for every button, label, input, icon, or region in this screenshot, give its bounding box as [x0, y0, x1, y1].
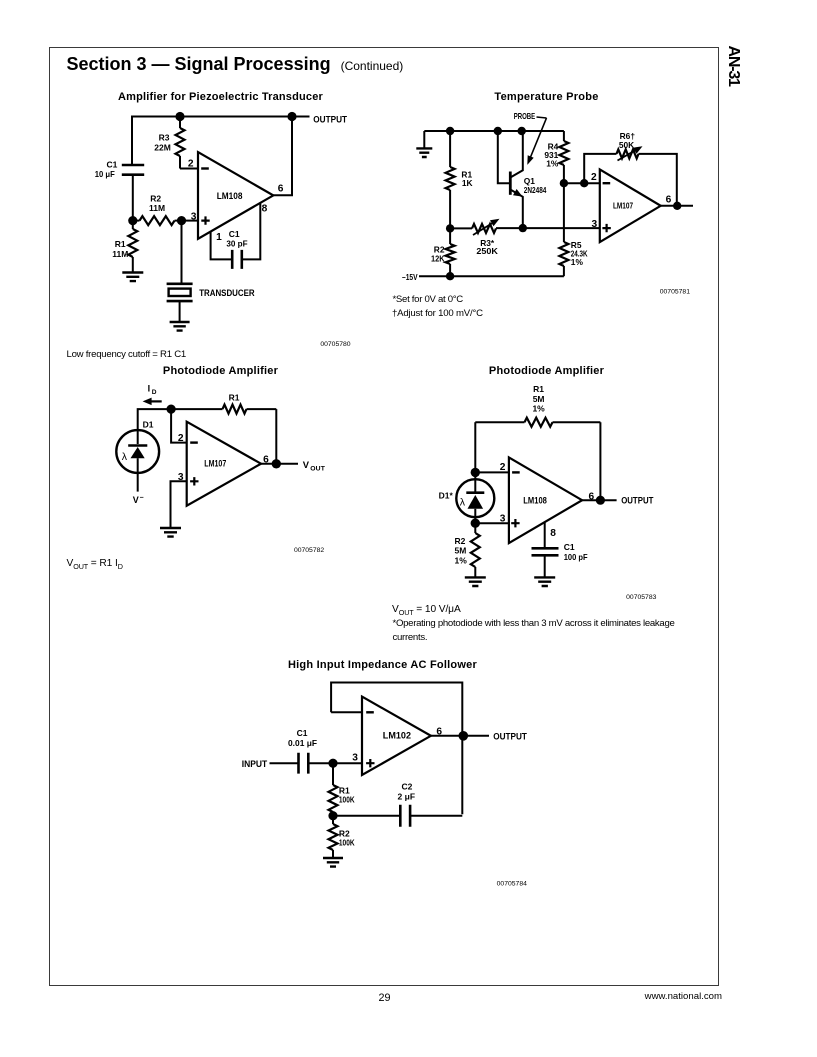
page border frame — [49, 47, 719, 986]
svg-text:00705784: 00705784 — [497, 880, 527, 887]
svg-text:R1: R1 — [229, 392, 240, 402]
wire C1 to pin3 circuit5 — [308, 762, 361, 764]
svg-text:8: 8 — [550, 528, 556, 539]
label 11M R1 — [112, 249, 128, 259]
ground top-left circuit2 — [416, 148, 432, 157]
section heading — [67, 54, 404, 75]
resistor R2 11M — [133, 216, 182, 225]
node inverting top circuit3 — [167, 405, 176, 414]
minus sign circuit1 — [201, 167, 209, 169]
svg-text:C1: C1 — [297, 728, 308, 738]
svg-text:1%: 1% — [455, 555, 468, 565]
wire transducer circuit1 — [181, 221, 183, 284]
pin 2 label circuit1 — [188, 158, 194, 169]
transistor Q1 2N2484 — [510, 131, 523, 228]
svg-text:LM107: LM107 — [613, 200, 633, 210]
formula VOUT = 10 V/uA — [392, 604, 461, 617]
svg-text:I: I — [148, 384, 151, 394]
label LM108 circuit4 — [523, 495, 547, 505]
label D1 circuit3 — [143, 420, 154, 430]
svg-text:00705780: 00705780 — [320, 341, 350, 348]
title circuit3 — [110, 365, 331, 377]
svg-text:100K: 100K — [339, 794, 355, 804]
wire output circuit5 — [431, 735, 489, 737]
plus sign circuit1 — [201, 216, 209, 224]
label R2 — [150, 194, 161, 204]
footer page number — [379, 992, 391, 1004]
svg-text:10 μF: 10 μF — [95, 169, 115, 179]
plus sign circuit5 — [366, 759, 374, 767]
svg-text:6: 6 — [278, 184, 284, 195]
note set for 0V — [393, 294, 463, 305]
label OUTPUT circuit5 — [493, 731, 527, 742]
op-amp U5 LM102 — [362, 697, 431, 775]
plus sign circuit3 — [190, 477, 198, 485]
label R1 5M 1% circuit4 — [532, 384, 545, 413]
pin 6 label circuit2 — [666, 194, 672, 205]
wire output circuit3 — [261, 463, 298, 465]
wire feedback top circuit5 — [331, 683, 462, 815]
svg-text:5M: 5M — [455, 546, 467, 556]
svg-text:OUTPUT: OUTPUT — [313, 114, 347, 125]
capacitor C2 2uF — [400, 805, 410, 827]
pin 2 label circuit4 — [500, 462, 506, 473]
svg-text:3: 3 — [178, 472, 184, 483]
label TRANSDUCER — [199, 287, 255, 298]
title circuit5 — [272, 659, 493, 671]
label V- circuit3 — [133, 495, 144, 506]
svg-text:OUTPUT: OUTPUT — [621, 495, 653, 506]
wire pin2 circuit4 — [475, 471, 508, 473]
plus sign circuit2 — [602, 224, 610, 232]
wire pin2 circuit5 — [331, 711, 361, 713]
svg-text:1%: 1% — [571, 257, 584, 267]
minus sign circuit2 — [603, 182, 611, 184]
label R3 — [159, 132, 170, 142]
node rail collector circuit2 — [518, 127, 526, 135]
svg-text:8: 8 — [262, 203, 268, 214]
svg-text:V: V — [303, 459, 310, 470]
svg-text:00705782: 00705782 — [294, 547, 324, 554]
label R2 5M 1% circuit4 — [455, 536, 468, 565]
wire output right circuit3 — [275, 409, 277, 464]
svg-text:V: V — [133, 495, 139, 505]
ground circuit3 — [160, 528, 181, 537]
wire ground stub circuit2 — [423, 131, 425, 148]
op-amp U2 LM107 — [600, 169, 661, 242]
ground below R2 circuit4 — [465, 577, 486, 586]
svg-text:3: 3 — [500, 514, 506, 525]
label D1* circuit4 — [439, 491, 454, 501]
note adjust for 100mV — [392, 308, 483, 319]
pin 3 label circuit5 — [352, 753, 358, 764]
wire feedback left circuit4 — [474, 422, 476, 472]
node pin3 circuit4 — [471, 519, 480, 528]
svg-text:00705783: 00705783 — [626, 594, 656, 601]
resistor R1 11M — [128, 221, 137, 273]
label PROBE — [514, 111, 536, 121]
label R1 — [115, 239, 126, 249]
label R5 24.3K 1% — [571, 240, 588, 267]
wire output stub circuit1 — [292, 116, 310, 118]
wire output circuit4 — [582, 499, 617, 501]
label OUTPUT circuit4 — [621, 495, 653, 506]
svg-text:C1: C1 — [564, 542, 575, 552]
resistor R1 100K circuit5 — [329, 763, 338, 816]
svg-text:6: 6 — [436, 726, 442, 737]
label INPUT circuit5 — [242, 758, 268, 769]
minus sign circuit5 — [366, 711, 374, 713]
figure code 00705780 — [320, 341, 350, 348]
wire input circuit5 — [270, 762, 299, 764]
svg-text:INPUT: INPUT — [242, 758, 268, 769]
svg-text:2: 2 — [591, 172, 597, 183]
label C1 100pF — [564, 542, 588, 562]
svg-text:6: 6 — [666, 194, 672, 205]
ground below transducer — [170, 322, 190, 331]
node R1R2C2 circuit5 — [328, 811, 337, 820]
label 11M R2 — [149, 203, 165, 213]
svg-text:λ: λ — [122, 451, 128, 463]
wire pin2 circuit2 — [564, 182, 599, 184]
resistor R1 1K — [446, 131, 455, 228]
svg-text:3: 3 — [191, 211, 197, 222]
svg-text:0.01 μF: 0.01 μF — [288, 738, 317, 748]
svg-text:2: 2 — [188, 158, 194, 169]
label C1 10uF — [95, 160, 118, 179]
potentiometer R6 50K — [617, 146, 643, 160]
pin 6 label circuit5 — [436, 726, 442, 737]
wire top rail circuit1 — [132, 117, 292, 166]
ground circuit5 — [323, 858, 343, 867]
resistor R1 circuit3 — [171, 405, 276, 414]
label R1 100K circuit5 — [339, 785, 355, 804]
wire -15V rail circuit2 — [419, 275, 564, 277]
svg-text:TRANSDUCER: TRANSDUCER — [199, 287, 255, 298]
wire feedback right circuit2 — [639, 154, 677, 206]
svg-text:3: 3 — [592, 219, 598, 230]
svg-text:D: D — [152, 389, 157, 396]
label C1 30pF — [226, 229, 247, 248]
svg-text:12K: 12K — [431, 254, 445, 264]
svg-text:–: – — [140, 495, 144, 502]
figure code 00705781 — [660, 288, 690, 295]
resistor R3 — [176, 117, 185, 169]
label R2 100K circuit5 — [339, 829, 355, 848]
wire C1 to ground circuit4 — [544, 555, 546, 577]
svg-text:22M: 22M — [154, 143, 171, 153]
node rail R1 circuit2 — [446, 127, 454, 135]
svg-text:OUT: OUT — [310, 465, 326, 472]
plus sign circuit4 — [511, 519, 519, 527]
svg-text:D1: D1 — [143, 420, 154, 430]
label Q1 2N2484 — [524, 176, 547, 195]
label R2 12K — [431, 245, 445, 264]
svg-text:50K: 50K — [619, 140, 634, 150]
svg-text:2: 2 — [500, 462, 506, 473]
node output circuit2 — [673, 202, 681, 210]
svg-text:2N2484: 2N2484 — [524, 185, 547, 195]
svg-text:11M: 11M — [112, 249, 128, 259]
label 22M — [154, 143, 171, 153]
svg-text:2 μF: 2 μF — [398, 791, 415, 801]
figure code 00705783 — [626, 594, 656, 601]
svg-text:2: 2 — [178, 433, 184, 444]
svg-text:250K: 250K — [476, 246, 498, 256]
potentiometer R3 250K — [450, 219, 499, 235]
svg-text:1%: 1% — [532, 403, 545, 413]
wire top left circuit3 — [138, 409, 171, 444]
transducer X1 — [167, 284, 193, 322]
minus sign circuit3 — [190, 441, 198, 443]
pin 3 label circuit4 — [500, 514, 506, 525]
note low frequency cutoff — [67, 349, 186, 360]
node R1R2C1 circuit1 — [128, 216, 137, 225]
svg-text:PROBE: PROBE — [514, 111, 536, 121]
wire pin3 circuit1 — [182, 220, 198, 222]
pin 2 label circuit2 — [591, 172, 597, 183]
node output circuit1 — [287, 112, 296, 121]
svg-text:00705781: 00705781 — [660, 288, 690, 295]
node output circuit3 — [272, 459, 281, 468]
label LM108 circuit1 — [217, 191, 243, 201]
svg-text:R2: R2 — [150, 194, 161, 204]
svg-text:11M: 11M — [149, 203, 165, 213]
photodiode D1 — [116, 430, 159, 492]
svg-text:λ: λ — [460, 497, 466, 509]
node output circuit5 — [459, 731, 469, 741]
node pin3 circuit5 — [328, 759, 337, 768]
wire node to C2 circuit5 — [333, 815, 400, 817]
svg-text:LM107: LM107 — [204, 459, 226, 469]
node pin3 circuit1 — [177, 216, 186, 225]
label LM102 circuit5 — [383, 731, 411, 741]
pin 6 label circuit1 — [278, 184, 284, 195]
wire pin3 circuit2 — [496, 227, 599, 229]
wire pin1 circuit1 — [211, 232, 232, 260]
wire pin2 circuit3 — [171, 409, 186, 443]
op-amp U4 LM108 — [509, 457, 582, 543]
svg-text:OUTPUT: OUTPUT — [493, 731, 527, 742]
wire pin8 circuit4 — [544, 522, 546, 548]
wire pin2 circuit1 — [180, 168, 197, 170]
pin 3 label circuit3 — [178, 472, 184, 483]
pin 8 label circuit4 — [550, 528, 556, 539]
label R6 50K — [619, 131, 636, 150]
capacitor C3 30pF — [232, 250, 242, 269]
node feedback tap circuit2 — [580, 179, 588, 187]
resistor R2 100K circuit5 — [329, 816, 338, 858]
wire C2 to output circuit5 — [409, 815, 462, 817]
title circuit2 — [436, 91, 657, 103]
node output circuit4 — [596, 496, 605, 505]
node emitter circuit2 — [519, 224, 527, 232]
photodiode D1 circuit4 — [456, 472, 494, 523]
node R3 top circuit1 — [175, 112, 184, 121]
probe pointer arrow — [527, 117, 546, 165]
svg-text:6: 6 — [263, 455, 269, 466]
pin 2 label circuit3 — [178, 433, 184, 444]
svg-text:AN-31: AN-31 — [725, 46, 742, 88]
wire feedback circuit2 — [584, 154, 616, 183]
svg-text:R1: R1 — [115, 239, 126, 249]
label C2 2uF — [398, 782, 415, 802]
label VOUT circuit3 — [303, 459, 326, 472]
minus sign circuit4 — [512, 471, 520, 473]
wire base Q1 — [498, 131, 510, 183]
op-amp U1 LM108 — [198, 152, 273, 239]
label C1 0.01uF — [288, 728, 317, 748]
current arrow ID — [143, 398, 162, 406]
label R1 1K — [461, 169, 472, 188]
label R4 931 1% — [544, 142, 559, 169]
label LM107 circuit2 — [613, 200, 633, 210]
formula VOUT = R1 ID — [67, 558, 123, 571]
resistor R1 circuit4 — [475, 418, 600, 427]
svg-text:3: 3 — [352, 753, 358, 764]
svg-text:R3: R3 — [159, 132, 170, 142]
wire C1 to node circuit1 — [132, 175, 134, 221]
pin 8 label circuit1 — [262, 203, 268, 214]
pin 6 label circuit4 — [589, 491, 595, 502]
ground below R1 — [122, 273, 143, 282]
svg-text:LM102: LM102 — [383, 731, 411, 741]
svg-text:C2: C2 — [401, 782, 412, 792]
label ID current — [148, 384, 157, 397]
note operating photodiode — [393, 617, 685, 644]
footer website — [560, 991, 722, 1002]
svg-text:30 pF: 30 pF — [226, 238, 247, 248]
label R1 circuit3 — [229, 392, 240, 402]
pin 1 label circuit1 — [216, 232, 222, 243]
svg-text:1K: 1K — [462, 178, 473, 188]
resistor R2 12K — [446, 228, 455, 276]
label -15V — [402, 272, 418, 282]
title circuit1 — [110, 91, 331, 103]
node pin2 circuit4 — [471, 468, 480, 477]
wire output circuit2 — [661, 205, 693, 207]
svg-text:–15V: –15V — [402, 272, 418, 282]
svg-text:100 pF: 100 pF — [564, 552, 588, 562]
wire pin3 circuit3 — [171, 481, 187, 528]
wire top rail circuit2 — [424, 130, 564, 132]
svg-text:D1*: D1* — [439, 491, 454, 501]
resistor R4 931 — [559, 131, 568, 183]
wire feedback right circuit4 — [599, 422, 601, 500]
sidebar label AN-31 — [725, 46, 742, 88]
svg-text:R2: R2 — [455, 536, 466, 546]
capacitor C1 100pF — [532, 548, 559, 555]
svg-text:1%: 1% — [546, 159, 559, 169]
svg-text:LM108: LM108 — [523, 495, 547, 505]
label OUTPUT circuit1 — [313, 114, 347, 125]
svg-text:LM108: LM108 — [217, 191, 243, 201]
figure code 00705784 — [497, 880, 527, 887]
op-amp U3 LM107 — [187, 422, 261, 506]
capacitor C1 0.01uF — [299, 753, 309, 774]
pin 3 label circuit2 — [592, 219, 598, 230]
node rail R2 circuit2 — [446, 272, 454, 280]
title circuit4 — [436, 365, 657, 377]
svg-text:100K: 100K — [339, 838, 355, 848]
resistor R2 5M circuit4 — [471, 523, 480, 577]
svg-text:6: 6 — [589, 491, 595, 502]
svg-text:R1: R1 — [533, 384, 544, 394]
svg-text:1: 1 — [216, 232, 222, 243]
node R3 left circuit2 — [446, 224, 454, 232]
label R3 250K — [476, 238, 498, 256]
wire pin8 circuit1 — [242, 203, 260, 260]
wire output circuit1 — [273, 117, 292, 196]
figure code 00705782 — [294, 547, 324, 554]
node rail base circuit2 — [494, 127, 502, 135]
pin 6 label circuit3 — [263, 455, 269, 466]
pin 3 label circuit1 — [191, 211, 197, 222]
label LM107 circuit3 — [204, 459, 226, 469]
node pin2 R4 circuit2 — [560, 179, 568, 187]
capacitor C1 10uF — [122, 165, 144, 175]
svg-text:5M: 5M — [533, 394, 545, 404]
wire pin3 circuit4 — [475, 522, 508, 524]
ground below C1 circuit4 — [534, 577, 555, 586]
resistor R5 24.3K — [559, 183, 568, 276]
